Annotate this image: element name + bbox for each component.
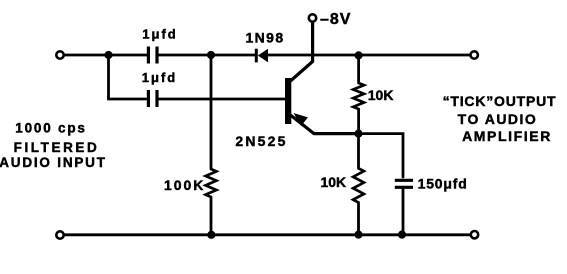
- svg-text:1μfd: 1μfd: [142, 27, 177, 42]
- svg-text:FILTERED: FILTERED: [14, 140, 100, 155]
- svg-text:–8V: –8V: [320, 11, 351, 28]
- svg-text:2N525: 2N525: [235, 133, 287, 149]
- svg-text:150μfd: 150μfd: [418, 176, 468, 192]
- svg-text:TO AUDIO: TO AUDIO: [458, 111, 538, 127]
- svg-text:AUDIO INPUT: AUDIO INPUT: [0, 155, 107, 170]
- svg-text:1000 cps: 1000 cps: [15, 121, 86, 136]
- svg-text:100K: 100K: [164, 177, 205, 193]
- svg-text:AMPLIFIER: AMPLIFIER: [462, 128, 552, 144]
- svg-text:10K: 10K: [368, 87, 394, 103]
- svg-text:10K: 10K: [320, 174, 346, 190]
- svg-text:1μfd: 1μfd: [142, 70, 177, 85]
- svg-text:1N98: 1N98: [245, 29, 284, 45]
- svg-text:“TICK”OUTPUT: “TICK”OUTPUT: [443, 93, 557, 109]
